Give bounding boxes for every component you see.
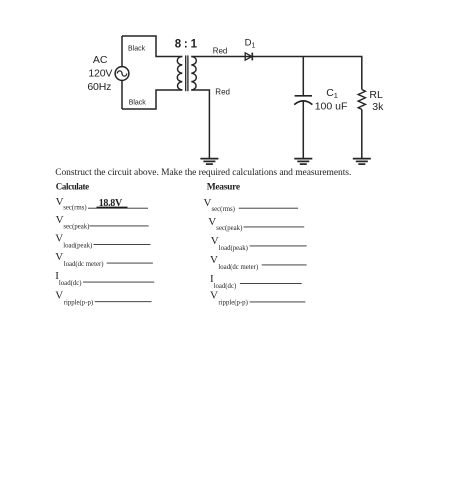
transformer T1 secondary winding [191, 57, 196, 91]
svg-text:1: 1 [191, 38, 198, 50]
svg-text:Measure: Measure [207, 182, 240, 192]
meas row 3: Vload(peak) [211, 235, 307, 252]
wire: secondary bottom to ground [191, 90, 209, 159]
svg-text:V: V [210, 254, 218, 266]
svg-text:D1: D1 [245, 38, 256, 50]
svg-text:100 uF: 100 uF [315, 100, 348, 112]
calc row 6: Vripple(p-p) [55, 289, 151, 306]
diode D1 [245, 53, 252, 61]
svg-text:Black: Black [129, 99, 147, 106]
svg-text:Construct the circuit above. M: Construct the circuit above. Make the re… [55, 168, 351, 178]
svg-text:load(peak): load(peak) [63, 242, 92, 249]
svg-text:Black: Black [128, 45, 146, 52]
svg-text:Red: Red [215, 88, 230, 97]
svg-text:8: 8 [175, 38, 182, 50]
svg-text:60Hz: 60Hz [87, 81, 111, 93]
svg-text:V: V [211, 235, 219, 247]
svg-text:sec(peak): sec(peak) [63, 224, 89, 231]
wire: capacitor C1 to ground [302, 101, 304, 158]
wire: primary bottom (source to transformer) [122, 90, 182, 109]
svg-text:Calculate: Calculate [56, 181, 89, 191]
svg-text:3k: 3k [372, 101, 384, 113]
meas row 1: Vsec(rms) [204, 197, 299, 213]
meas row 6: Vripple(p-p) [210, 289, 305, 306]
wire: resistor RL to ground [361, 109, 363, 158]
svg-text::: : [184, 38, 188, 50]
svg-text:Red: Red [213, 46, 228, 55]
svg-text:load(dc meter): load(dc meter) [218, 264, 258, 271]
svg-text:ripple(p-p): ripple(p-p) [218, 300, 247, 307]
svg-text:C1: C1 [326, 87, 338, 100]
svg-text:V: V [55, 251, 63, 263]
svg-text:load(dc): load(dc) [59, 280, 82, 287]
wire: load node down to capacitor C1 [302, 57, 304, 96]
svg-text:sec(peak): sec(peak) [216, 225, 242, 232]
AC source V1 [115, 67, 129, 81]
ground: capacitor C1 [294, 159, 312, 165]
svg-text:sec(rms): sec(rms) [212, 206, 235, 213]
calc row 2: Vsec(peak) [56, 214, 149, 230]
meas row 4: Vload(dc meter) [210, 254, 307, 271]
calc row 3: Vload(peak) [55, 233, 150, 250]
transformer T1 primary winding [177, 57, 182, 91]
svg-text:AC: AC [93, 54, 108, 66]
svg-text:V: V [210, 289, 218, 301]
svg-text:V: V [56, 214, 64, 226]
resistor RL [358, 90, 365, 110]
ground: transformer secondary [200, 159, 218, 165]
svg-text:V: V [55, 289, 63, 301]
svg-text:V: V [204, 197, 212, 209]
wire: primary top (source to transformer) [122, 36, 182, 57]
svg-text:V: V [55, 233, 63, 245]
svg-text:sec(rms): sec(rms) [63, 205, 86, 212]
calc row 4: Vload(dc meter) [55, 251, 153, 268]
svg-text:load(peak): load(peak) [219, 245, 248, 252]
svg-text:RL: RL [369, 89, 383, 101]
ground: resistor RL [353, 159, 371, 165]
meas row 2: Vsec(peak) [208, 216, 304, 232]
capacitor C1 (polarized) [294, 96, 312, 105]
calc row 1: Vsec(rms) = 18.8V [56, 196, 148, 212]
svg-text:V: V [208, 216, 216, 228]
transformer T1 core [186, 55, 188, 91]
wire: secondary top through load node down to RL [191, 57, 361, 90]
svg-text:load(dc meter): load(dc meter) [64, 261, 104, 268]
calc row 5: Iload(dc) [55, 270, 154, 287]
svg-text:120V: 120V [88, 67, 112, 79]
svg-text:ripple(p-p): ripple(p-p) [64, 299, 93, 306]
meas row 5: Iload(dc) [210, 273, 302, 290]
wire: primary left vertical through source [121, 36, 123, 109]
